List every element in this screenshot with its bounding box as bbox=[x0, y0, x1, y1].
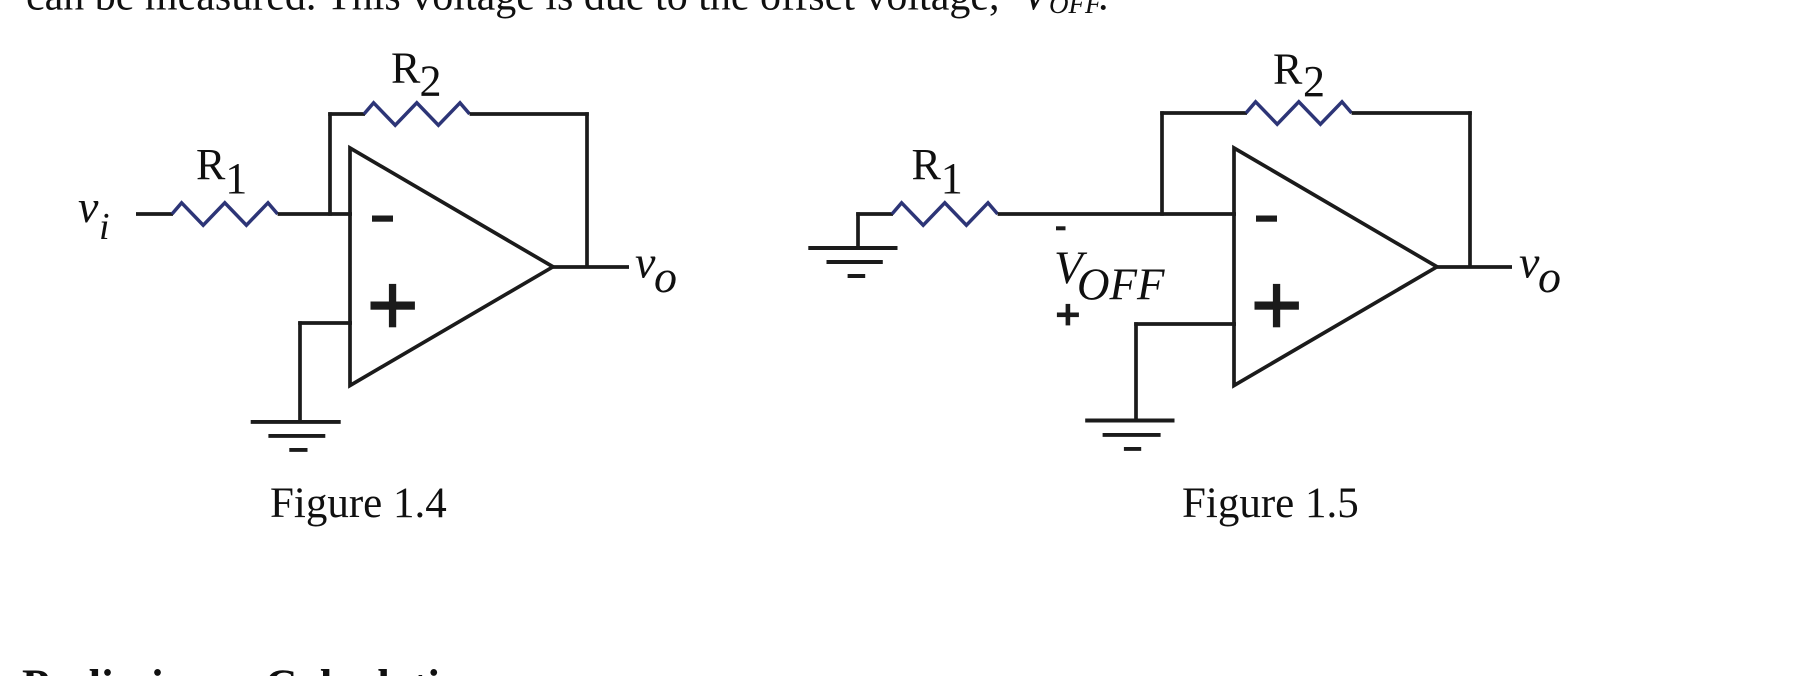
wire noninverting input (fig 1.4) bbox=[298, 321, 352, 325]
wire down to ground (fig 1.5) bbox=[1134, 322, 1138, 420]
svg-text:2: 2 bbox=[420, 57, 442, 106]
ground middle (fig 1.5) bbox=[1085, 421, 1174, 449]
svg-text:R: R bbox=[391, 44, 421, 93]
wire ground to R1 (fig 1.5) bbox=[856, 212, 893, 216]
svg-text:v: v bbox=[1519, 237, 1540, 288]
bottom cut-off heading bbox=[22, 661, 505, 676]
resistor R1 (fig 1.4) bbox=[172, 203, 278, 225]
node plus polarity mark (fig 1.5) bbox=[1057, 304, 1079, 326]
label R1 (fig 1.4) bbox=[196, 140, 247, 203]
wire feedback riser (fig 1.5) bbox=[1160, 111, 1164, 216]
wire output riser down (fig 1.4) bbox=[585, 112, 589, 267]
svg-text:v: v bbox=[78, 181, 99, 232]
wire output (fig 1.4) bbox=[553, 265, 629, 269]
op-amp U2 plus sign bbox=[1255, 284, 1299, 327]
svg-text:Figure 1.4: Figure 1.4 bbox=[270, 480, 447, 527]
svg-text:OFF: OFF bbox=[1077, 260, 1165, 310]
svg-text:v: v bbox=[635, 237, 656, 288]
wire top left to R2 (fig 1.5) bbox=[1160, 111, 1247, 115]
resistor R2 (fig 1.4) bbox=[364, 103, 470, 125]
wire R1 to inverting input (fig 1.5) bbox=[998, 212, 1236, 216]
svg-text:R: R bbox=[912, 140, 942, 189]
wire top left to R2 (fig 1.4) bbox=[328, 112, 365, 116]
svg-text:R: R bbox=[196, 140, 226, 189]
node vo label (fig 1.5) bbox=[1519, 237, 1561, 303]
svg-text:can be measured. This voltage: can be measured. This voltage is due to … bbox=[26, 0, 1000, 20]
label VOFF bbox=[1054, 242, 1165, 310]
wire output (fig 1.5) bbox=[1437, 265, 1512, 269]
resistor R2 (fig 1.5) bbox=[1246, 102, 1352, 124]
ground left (fig 1.5) bbox=[808, 248, 897, 276]
ground (fig 1.4) bbox=[251, 422, 341, 450]
svg-text:Preliminary Calculations: Preliminary Calculations bbox=[22, 661, 505, 676]
wire output riser down (fig 1.5) bbox=[1468, 111, 1472, 267]
label R2 (fig 1.5) bbox=[1273, 45, 1325, 107]
top cut-off paragraph text bbox=[26, 0, 1109, 20]
wire R1 to inverting input (fig 1.4) bbox=[278, 212, 352, 216]
op-amp U1 plus sign bbox=[371, 284, 415, 327]
resistor R1 (fig 1.5) bbox=[892, 203, 998, 225]
caption Figure 1.4 bbox=[270, 480, 447, 527]
wire feedback riser (fig 1.4) bbox=[328, 112, 332, 216]
op-amp U2 minus sign bbox=[1256, 216, 1277, 222]
svg-text:1: 1 bbox=[225, 154, 247, 203]
node vi label bbox=[78, 181, 110, 248]
op-amp U1 triangle (fig 1.4) bbox=[350, 148, 553, 386]
svg-text:o: o bbox=[1538, 251, 1561, 302]
svg-text:V: V bbox=[1022, 0, 1052, 20]
wire noninverting input (fig 1.5) bbox=[1134, 322, 1236, 326]
label R1 (fig 1.5) bbox=[912, 140, 963, 203]
svg-text:i: i bbox=[99, 206, 110, 248]
node minus polarity mark (fig 1.5) bbox=[1056, 226, 1066, 230]
svg-text:Figure 1.5: Figure 1.5 bbox=[1182, 480, 1359, 527]
svg-text:R: R bbox=[1273, 45, 1303, 94]
wire ground riser (fig 1.5) bbox=[856, 212, 860, 248]
svg-text:1: 1 bbox=[941, 154, 963, 203]
svg-text:o: o bbox=[654, 251, 677, 302]
op-amp U2 triangle (fig 1.5) bbox=[1234, 148, 1437, 386]
op-amp U1 minus sign bbox=[372, 216, 393, 222]
caption Figure 1.5 bbox=[1182, 480, 1359, 527]
label R2 (fig 1.4) bbox=[391, 44, 442, 106]
wire input vi to R1 bbox=[136, 212, 173, 216]
svg-text:2: 2 bbox=[1303, 57, 1325, 106]
node vo label (fig 1.4) bbox=[635, 237, 677, 303]
svg-text:OFF: OFF bbox=[1049, 0, 1102, 19]
wire down to ground (fig 1.4) bbox=[298, 321, 302, 420]
wire R2 to output riser (fig 1.4) bbox=[470, 112, 589, 116]
svg-text:.: . bbox=[1098, 0, 1109, 20]
wire R2 to output riser (fig 1.5) bbox=[1352, 111, 1472, 115]
